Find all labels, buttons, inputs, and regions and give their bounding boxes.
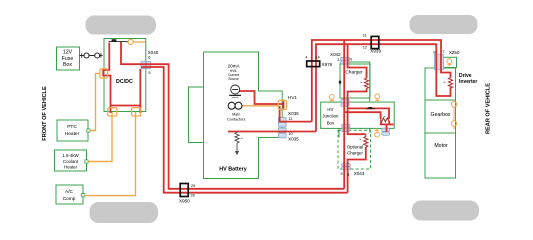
- junction connectors bottom-left fill: [342, 124, 350, 128]
- svg-text:X043: X043: [354, 171, 365, 176]
- svg-text:Charger: Charger: [347, 150, 363, 155]
- connector X042 fill: [341, 57, 350, 60]
- connector X939 fill: [371, 36, 379, 48]
- junction fuse symbol: [366, 107, 375, 109]
- junction red tee: [380, 121, 394, 133]
- battery HVIL source text: [228, 64, 240, 81]
- motor box: [425, 133, 456, 178]
- svg-text:HV: HV: [327, 107, 333, 112]
- svg-text:3: 3: [347, 172, 349, 177]
- green stub junction to optional charger right: [369, 128, 371, 133]
- svg-text:Coolant: Coolant: [63, 159, 79, 164]
- red right leg to bottom connector: [139, 106, 141, 114]
- charger resistor: [364, 78, 368, 89]
- svg-text:Heater: Heater: [64, 164, 78, 169]
- svg-text:X939: X939: [370, 48, 381, 53]
- red wire A: DC/DC pin6 to bottom run to optional charger: [121, 42, 344, 189]
- svg-text:≈: ≈: [444, 81, 446, 85]
- connector X939 border: [371, 36, 379, 48]
- svg-text:29: 29: [191, 183, 195, 188]
- connector X950 fill: [180, 184, 188, 197]
- wheel front-left: [86, 16, 157, 35]
- battery bleed resistor: [235, 132, 239, 156]
- inverter resistor: [448, 78, 452, 88]
- connector X040 fill: [141, 61, 146, 68]
- svg-text:Motor: Motor: [434, 143, 448, 149]
- connector X950 border: [180, 184, 188, 197]
- orange square DC/DC bottom-left: [108, 108, 117, 116]
- svg-text:X250: X250: [449, 50, 460, 55]
- svg-text:≈: ≈: [241, 136, 243, 140]
- 12V wire with connectors: [80, 53, 103, 58]
- svg-text:Inverter: Inverter: [459, 79, 477, 85]
- red wire source to HV1: [240, 91, 284, 104]
- red pin bar in HV1: [283, 101, 285, 109]
- svg-text:REAR OF VEHICLE: REAR OF VEHICLE: [486, 83, 492, 134]
- HVIL symbol junction top-right: [375, 94, 380, 102]
- red drop to X042 from top line: [343, 40, 345, 58]
- wheel rear-right: [412, 201, 479, 221]
- connector X036 fill: [278, 118, 286, 123]
- HVIL symbol junction bottom: [375, 128, 380, 137]
- svg-text:X035: X035: [288, 136, 299, 141]
- junction connectors top fill: [341, 99, 349, 103]
- svg-text:Charger: Charger: [345, 69, 363, 75]
- red wire battery X035 run: [228, 131, 316, 133]
- X250 HVIL box: [443, 57, 457, 67]
- red drop to X042 from second line: [347, 44, 349, 57]
- charger left edge symbol: [339, 80, 341, 85]
- svg-text:PTC: PTC: [67, 124, 77, 130]
- svg-text:6: 6: [148, 54, 150, 59]
- svg-text:X042: X042: [330, 52, 341, 57]
- red pass-through column to X043: [343, 58, 345, 189]
- junction connector bottom-right fill: [382, 128, 390, 131]
- red wire switch down through left connector to bottom: [103, 43, 110, 114]
- 12V fuse box: [57, 47, 80, 70]
- gearbox HVIL loop: [451, 100, 456, 130]
- orange wire coolant heater to DC/DC: [88, 112, 112, 162]
- DC/DC box: [104, 39, 146, 112]
- red junction lower branch: [344, 112, 380, 119]
- HV battery box: [204, 52, 283, 179]
- battery side box: [189, 87, 204, 143]
- svg-text:Heater: Heater: [65, 131, 80, 137]
- A/C comp box: [56, 185, 85, 204]
- orange wire A/C comp to DC/DC: [84, 112, 135, 196]
- red crossbar in DC/DC: [111, 69, 141, 106]
- svg-text:A/C: A/C: [65, 189, 74, 195]
- optional charger loop return: [348, 147, 366, 193]
- svg-text:Source: Source: [228, 77, 239, 81]
- svg-text:X976: X976: [322, 62, 333, 67]
- svg-text:11: 11: [288, 116, 292, 121]
- svg-text:28: 28: [190, 192, 194, 197]
- connector X976 border: [307, 61, 320, 67]
- HV junction box: [321, 102, 395, 128]
- svg-text:Gearbox: Gearbox: [431, 112, 451, 118]
- HVIL symbol X250 box: [447, 59, 452, 67]
- connector X250 fill: [434, 54, 443, 70]
- coolant heater box: [55, 150, 89, 171]
- svg-text:≈: ≈: [359, 138, 361, 142]
- wheel front-right: [410, 15, 478, 34]
- svg-text:3: 3: [337, 57, 339, 62]
- svg-text:HV1: HV1: [288, 95, 297, 100]
- junction resistor: [381, 118, 389, 122]
- connector X976 fill: [307, 61, 320, 67]
- optional charger dashed box: [338, 130, 371, 169]
- red riser X976 pin4 to top line to X250 pin7 into inverter: [312, 40, 451, 122]
- wheel rear-left: [90, 202, 159, 223]
- svg-text:FRONT OF VEHICLE: FRONT OF VEHICLE: [42, 86, 48, 141]
- orange square DC/DC bottom-right: [132, 108, 141, 116]
- green stub junction to optional charger left: [338, 128, 340, 137]
- svg-text:Box: Box: [327, 120, 335, 125]
- connector X043 fill: [342, 163, 351, 166]
- svg-text:Main: Main: [232, 113, 240, 117]
- drive inverter box: [425, 68, 456, 100]
- green wire X042 right to junction box: [350, 62, 370, 102]
- svg-text:7: 7: [442, 49, 444, 54]
- svg-text:Fuse: Fuse: [62, 56, 74, 62]
- svg-text:HV Battery: HV Battery: [219, 166, 247, 172]
- connector X035 fill: [278, 128, 286, 133]
- svg-text:DC/DC: DC/DC: [116, 79, 133, 85]
- orange square HV1: [278, 100, 286, 109]
- red charger loop feed: [348, 58, 367, 79]
- PTC heater box: [57, 120, 90, 141]
- svg-text:Junction: Junction: [322, 114, 339, 119]
- svg-text:Optional: Optional: [347, 145, 363, 150]
- red wire B: DC/DC pin5 to bottom run lower: [141, 67, 348, 193]
- red riser X976 pin14 to second line to X250 pin8 into inverter: [316, 44, 451, 131]
- svg-text:8: 8: [433, 49, 435, 54]
- red charger loop return: [348, 89, 367, 135]
- svg-text:9: 9: [341, 171, 343, 176]
- svg-text:≈: ≈: [360, 80, 362, 84]
- svg-text:11: 11: [363, 33, 367, 38]
- charger box: [340, 64, 370, 98]
- main contactors: [228, 102, 242, 109]
- svg-text:9: 9: [350, 56, 352, 61]
- orange wire PTC to DC/DC: [90, 74, 101, 131]
- svg-text:Comp: Comp: [63, 196, 76, 202]
- orange square DC/DC left: [100, 69, 108, 78]
- svg-text:Contactors: Contactors: [227, 117, 245, 121]
- red junction upper branch: [348, 108, 389, 119]
- gearbox box: [425, 100, 456, 133]
- svg-text:12: 12: [363, 44, 367, 49]
- svg-text:12V: 12V: [63, 49, 73, 55]
- svg-text:20mA: 20mA: [228, 64, 240, 69]
- svg-text:X950: X950: [179, 198, 190, 203]
- DC/DC switch symbol: [109, 39, 128, 41]
- orange wire contactors to HV1: [242, 105, 279, 107]
- svg-text:Box: Box: [63, 62, 72, 68]
- optional charger resistor: [364, 134, 368, 147]
- HVIL symbol junction top-left: [329, 95, 334, 103]
- svg-text:1.5-4kW: 1.5-4kW: [62, 153, 79, 158]
- red wire HV1 down to X036 run: [280, 106, 312, 122]
- current source circle: [229, 85, 241, 97]
- DC/DC fuse symbol: [127, 39, 146, 44]
- svg-text:5: 5: [148, 70, 150, 75]
